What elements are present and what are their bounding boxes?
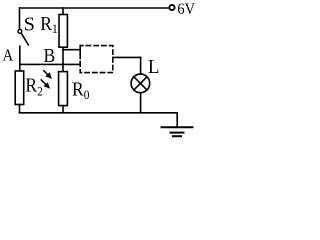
- wire upper tap from B to box: [63, 49, 80, 51]
- wire lamp top stub: [140, 57, 142, 74]
- svg-text:S: S: [24, 13, 35, 35]
- resistor R2: [15, 71, 24, 105]
- wire node A to B horizontal: [20, 63, 80, 65]
- wire top: [20, 7, 169, 9]
- resistor R0: [59, 72, 68, 106]
- switch S blade: [21, 33, 28, 45]
- wire R0 bottom stub: [62, 106, 64, 113]
- svg-text:A: A: [3, 47, 14, 65]
- lamp L: [131, 74, 150, 93]
- wire box to lamp horizontal: [113, 56, 141, 58]
- black box (dashed): [80, 46, 113, 73]
- wire B vertical: [62, 47, 64, 71]
- terminal 6V: [169, 5, 174, 10]
- wire left upper: [19, 8, 21, 29]
- wire lamp bottom stub: [140, 93, 142, 113]
- wire hook upper tap into box: [79, 50, 81, 55]
- wire left lower: [19, 46, 21, 71]
- switch S pivot: [18, 30, 22, 34]
- wire bottom: [20, 112, 178, 114]
- wire R1 top stub: [62, 8, 64, 15]
- wire hook lower tap into box: [79, 61, 81, 64]
- wire R2 bottom stub: [19, 105, 21, 113]
- svg-text:6V: 6V: [177, 0, 195, 18]
- resistor R1: [59, 15, 67, 48]
- svg-text:B: B: [44, 45, 56, 67]
- photoresistor arrows: [41, 70, 52, 88]
- svg-text:L: L: [148, 57, 160, 79]
- ground: [176, 113, 178, 127]
